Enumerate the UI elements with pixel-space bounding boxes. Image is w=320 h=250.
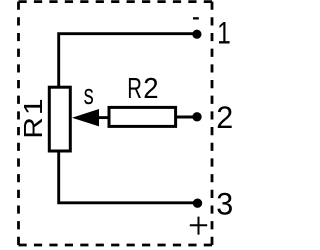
plus polarity mark [190,217,207,235]
dashed enclosure border bottom [19,244,213,247]
resistor R2 body [109,107,176,126]
svg-text:1: 1 [217,15,231,51]
potentiometer R1 body [49,87,70,151]
wiper wire from arrow to R2 [99,116,111,119]
wire from R2 to terminal 2 [176,116,197,119]
dashed enclosure border top [19,0,213,3]
dashed enclosure border right [211,2,214,245]
svg-text:2: 2 [216,99,233,135]
wiper arrow of R1 [72,109,99,126]
minus polarity mark [193,17,199,19]
terminal dot 2 [192,112,201,121]
dashed enclosure border left [17,2,20,245]
svg-text:2: 2 [143,71,158,104]
terminal dot 3 [193,199,202,208]
svg-text:R: R [127,73,142,105]
svg-text:3: 3 [216,186,233,222]
wire from R1 top to terminal 1 [59,34,197,87]
wire from R1 bottom to terminal 3 [59,151,198,203]
svg-text:s: s [84,79,94,111]
terminal dot 1 [192,30,201,39]
svg-text:R1: R1 [19,96,48,138]
